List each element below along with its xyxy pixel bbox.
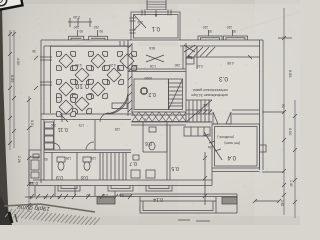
room 0.4 bottom outer (212, 171, 260, 173)
bottom wall of building (33, 179, 212, 181)
room 0.3 bottom wall w/ opening (186, 109, 260, 111)
arc partition in dining SE corner (104, 93, 128, 114)
dim vline x205 (204, 152, 206, 205)
extra tick row bottom-left (36, 194, 68, 199)
dim hline bottom-right (255, 200, 279, 202)
connector vlines to tick row (35, 186, 115, 196)
svg-text:175: 175 (78, 123, 84, 127)
small slashes left of wall (34, 56, 38, 90)
dining inner top wall (50, 45, 128, 47)
table group row1 (0, 0, 3, 3)
svg-text:8.85: 8.85 (10, 75, 14, 82)
svg-text:5.00: 5.00 (288, 128, 292, 135)
room 0.3 left wall (185, 43, 187, 122)
corridor stairs bottom-centre (103, 153, 123, 181)
diagonal dim line bottom-right of stairs (204, 132, 222, 160)
bottom small dim ticks row (25, 196, 132, 197)
svg-text:240: 240 (174, 63, 180, 67)
staircase mid (169, 79, 183, 110)
svg-text:90: 90 (79, 29, 83, 33)
window bump right-2 (224, 36, 248, 40)
paper edge crease bottom-left (4, 204, 95, 212)
black frame box top-left (corner of adjacent sheet) (0, 0, 23, 10)
svg-text:90: 90 (43, 195, 47, 199)
svg-text:4.00: 4.00 (16, 58, 20, 65)
window bump right-1 (198, 36, 222, 40)
svg-text:(multifunk.): (multifunk.) (217, 135, 234, 139)
svg-text:210: 210 (202, 25, 208, 29)
building footprint light fill (44, 11, 260, 180)
interior line room 0.3 (186, 56, 260, 58)
svg-text:0.6: 0.6 (145, 140, 152, 146)
svg-text:5.01: 5.01 (30, 120, 34, 127)
svg-text:0.5: 0.5 (171, 165, 179, 171)
cabinets left column (45, 122, 54, 128)
svg-text:90: 90 (120, 193, 124, 197)
room 0.1 door swing (134, 15, 146, 28)
svg-text:210: 210 (226, 25, 232, 29)
corridor door arc below dining (100, 113, 109, 122)
svg-text:105: 105 (186, 55, 192, 59)
svg-text:(frei raum): (frei raum) (224, 141, 240, 145)
building bottom-left outline (29, 149, 41, 151)
left dim line B (28, 96, 30, 212)
room 0.4 box (212, 124, 260, 168)
svg-text:240: 240 (50, 123, 56, 127)
mid/lower structural linework (25, 10, 281, 222)
svg-text:125: 125 (65, 156, 71, 160)
room 0.1 window ticks (130, 18, 136, 33)
thick pencil mark bottom-left (9, 212, 12, 223)
furniture room 0.7 (131, 170, 140, 178)
bottom-left dark corner (0, 195, 12, 225)
wall above room 0.2 (128, 68, 186, 70)
svg-text:2.26: 2.26 (17, 156, 21, 163)
svg-text:90: 90 (44, 157, 48, 161)
svg-text:90: 90 (232, 29, 236, 33)
svg-text:45: 45 (57, 195, 61, 199)
svg-text:240: 240 (132, 64, 138, 68)
svg-text:0500: 0500 (144, 76, 152, 80)
svg-text:0.24: 0.24 (197, 64, 203, 68)
room 0.6 walls (143, 122, 167, 152)
svg-text:mehrzweckraum gastst.: mehrzweckraum gastst. (192, 88, 228, 92)
svg-text:90: 90 (86, 193, 90, 197)
X door marks below room 0.1 (146, 55, 164, 62)
svg-text:95: 95 (281, 104, 285, 108)
top-left small dim marks (70, 18, 90, 27)
svg-text:0.7: 0.7 (129, 160, 137, 166)
vestibule door marks (184, 45, 195, 52)
room 0.1 walls (131, 12, 180, 40)
svg-text:0.3: 0.3 (219, 75, 228, 82)
hatch top-left of room 0.3 (188, 47, 215, 57)
dining bottom wall (41, 113, 131, 115)
left dim line A (10, 30, 14, 150)
svg-text:0.9: 0.9 (56, 174, 63, 180)
svg-text:2.40: 2.40 (73, 15, 80, 19)
svg-text:4.58: 4.58 (227, 61, 234, 65)
svg-text:210: 210 (73, 25, 79, 29)
svg-text:290: 290 (137, 20, 143, 24)
vestibule walls right of room 0.1 (182, 46, 184, 69)
bottom dashes right (178, 220, 210, 221)
svg-text:1.05: 1.05 (150, 64, 156, 68)
dining right wall (double, hatched) (127, 40, 129, 116)
faint crease top-right (128, 12, 300, 58)
left lower outer wall (40, 120, 42, 183)
svg-text:0.8: 0.8 (81, 174, 88, 180)
svg-text:90: 90 (208, 29, 212, 33)
svg-text:4.05: 4.05 (75, 63, 82, 67)
main top wall right section (180, 39, 263, 41)
dining window bump (69, 36, 108, 40)
circle table room 0.2 (140, 87, 147, 94)
left wall window ticks (40, 57, 52, 85)
svg-text:45: 45 (29, 195, 33, 199)
svg-text:1.40: 1.40 (289, 180, 293, 187)
terrace posts (97, 197, 115, 204)
svg-text:210: 210 (93, 25, 99, 29)
svg-text:0.10: 0.10 (75, 82, 89, 89)
svg-text:19pfg gomu: 19pfg gomu (17, 204, 50, 212)
dining left inner wall (50, 46, 52, 113)
double door triangles (213, 112, 231, 124)
svg-text:125: 125 (114, 127, 120, 131)
WC fixtures (149, 142, 155, 150)
svg-text:8.85: 8.85 (288, 70, 292, 77)
paper left dark edge (0, 0, 9, 225)
junction marks dining/top wall (120, 41, 124, 46)
svg-text:19x: 19x (207, 145, 213, 149)
window bump right (260, 145, 267, 152)
faint crease top-left (30, 40, 95, 58)
svg-text:aufenthaltsraum 34,5qm: aufenthaltsraum 34,5qm (191, 93, 228, 97)
hatched section of that wall (198, 110, 212, 114)
svg-text:2.26: 2.26 (102, 193, 108, 197)
cross-hatched strip (132, 112, 186, 122)
svg-text:0.4: 0.4 (227, 154, 236, 160)
pencil hatch band bottom-left (5, 209, 100, 226)
svg-text:0.1: 0.1 (151, 25, 160, 31)
door arc room 0.11 (86, 142, 94, 150)
room 0.5/0.6 divider (166, 125, 168, 180)
svg-text:0.2: 0.2 (148, 91, 156, 97)
left outer wall (40, 40, 42, 120)
svg-text:2.60: 2.60 (280, 200, 284, 206)
kitchen counter room 0.5 (184, 127, 210, 136)
svg-text:OLE: OLE (203, 103, 209, 107)
svg-text:4.20: 4.20 (109, 63, 116, 67)
room 0.2 box (134, 79, 169, 110)
svg-text:125: 125 (90, 156, 96, 160)
window bumps below bottom wall (58, 186, 80, 192)
svg-text:90: 90 (99, 29, 103, 33)
stairs right of strip (186, 100, 212, 122)
shelf under arc (112, 103, 127, 109)
right wall (259, 40, 261, 170)
svg-text:0.11: 0.11 (58, 126, 68, 132)
interior walls lower-left block (53, 120, 55, 150)
terrace outline (120, 194, 237, 197)
main top wall left section (41, 39, 131, 41)
svg-text:818: 818 (149, 46, 155, 50)
small room far-left fixtures (31, 160, 39, 170)
svg-text:36: 36 (32, 49, 36, 53)
